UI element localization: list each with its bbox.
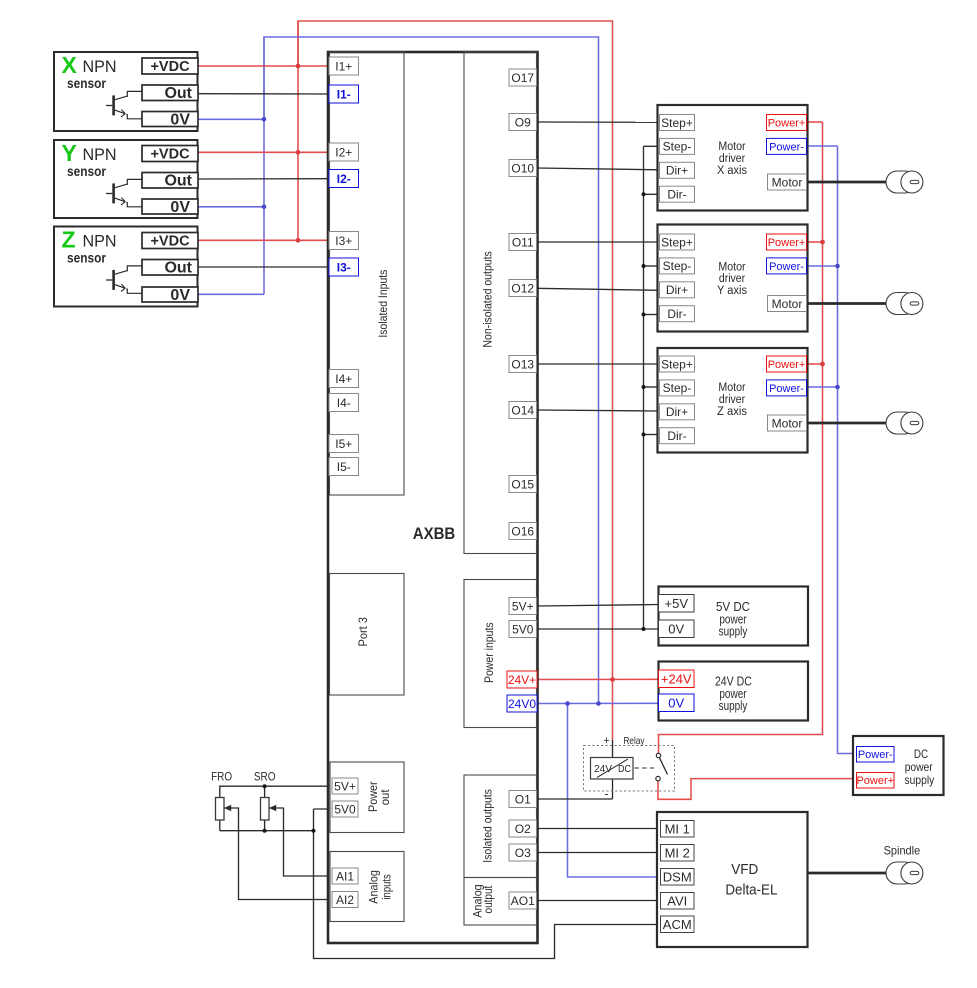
- svg-text:Motor: Motor: [718, 261, 745, 273]
- svg-text:SRO: SRO: [254, 772, 276, 784]
- svg-text:Out: Out: [164, 260, 192, 277]
- svg-text:DSM: DSM: [663, 869, 692, 884]
- svg-text:O16: O16: [511, 524, 534, 538]
- svg-text:ACM: ACM: [663, 917, 692, 932]
- svg-text:MI 2: MI 2: [665, 845, 690, 860]
- svg-text:+24V: +24V: [661, 671, 692, 686]
- svg-text:5V0: 5V0: [334, 802, 356, 816]
- svg-text:0V: 0V: [170, 199, 190, 216]
- svg-text:5V+: 5V+: [334, 779, 356, 793]
- svg-text:Out: Out: [164, 173, 192, 190]
- svg-text:-: -: [605, 787, 609, 801]
- svg-text:O13: O13: [511, 357, 534, 371]
- svg-text:Z axis: Z axis: [717, 406, 747, 418]
- svg-text:inputs: inputs: [380, 874, 394, 899]
- svg-text:AVI: AVI: [667, 893, 687, 908]
- svg-text:I1-: I1-: [337, 87, 351, 101]
- svg-text:driver: driver: [719, 153, 745, 165]
- svg-text:I3-: I3-: [337, 260, 351, 274]
- svg-text:Power-: Power-: [858, 749, 893, 761]
- svg-text:I4-: I4-: [337, 396, 351, 410]
- svg-text:Step-: Step-: [663, 381, 692, 395]
- svg-text:Step+: Step+: [661, 357, 693, 371]
- svg-text:NPN: NPN: [83, 233, 117, 251]
- svg-text:Power-: Power-: [769, 261, 804, 273]
- svg-text:0V: 0V: [170, 287, 190, 304]
- svg-text:+VDC: +VDC: [150, 147, 190, 163]
- svg-text:AXBB: AXBB: [413, 524, 456, 543]
- svg-text:FRO: FRO: [211, 772, 232, 784]
- svg-text:Step-: Step-: [663, 259, 692, 273]
- svg-text:Power-: Power-: [769, 141, 804, 153]
- svg-text:Power+: Power+: [768, 359, 806, 371]
- svg-text:O3: O3: [515, 846, 531, 860]
- svg-text:+: +: [603, 735, 609, 747]
- svg-text:Dir-: Dir-: [667, 429, 686, 443]
- svg-text:Relay: Relay: [624, 735, 646, 747]
- svg-text:Motor: Motor: [772, 175, 803, 189]
- svg-text:+VDC: +VDC: [150, 234, 190, 250]
- svg-text:Power inputs: Power inputs: [482, 622, 496, 683]
- svg-text:Step+: Step+: [661, 235, 693, 249]
- svg-text:AO1: AO1: [511, 894, 535, 908]
- svg-text:5V+: 5V+: [512, 599, 534, 613]
- svg-text:NPN: NPN: [83, 146, 117, 164]
- svg-text:O12: O12: [511, 281, 534, 295]
- svg-text:O17: O17: [511, 71, 534, 85]
- svg-text:Spindle: Spindle: [884, 844, 921, 858]
- svg-text:supply: supply: [719, 698, 748, 713]
- svg-text:5V0: 5V0: [512, 622, 534, 636]
- svg-text:Out: Out: [164, 85, 192, 102]
- svg-text:0V: 0V: [668, 621, 684, 636]
- svg-text:supply: supply: [905, 773, 935, 787]
- svg-text:Motor: Motor: [718, 141, 745, 153]
- svg-text:AI2: AI2: [336, 893, 354, 907]
- svg-text:Isolated outputs: Isolated outputs: [481, 789, 495, 863]
- svg-text:Non-isolated outputs: Non-isolated outputs: [481, 251, 495, 347]
- svg-text:driver: driver: [719, 394, 745, 406]
- svg-text:O2: O2: [515, 822, 531, 836]
- svg-text:24V: 24V: [594, 764, 612, 775]
- svg-text:0V: 0V: [668, 695, 684, 710]
- svg-text:driver: driver: [719, 273, 745, 285]
- svg-text:Isolated Inputs: Isolated Inputs: [376, 270, 390, 338]
- svg-text:DC: DC: [914, 747, 928, 761]
- svg-text:Y axis: Y axis: [717, 285, 747, 297]
- svg-text:Step+: Step+: [661, 116, 693, 130]
- svg-text:Dir-: Dir-: [667, 307, 686, 321]
- svg-text:Step-: Step-: [663, 140, 692, 154]
- svg-text:Power-: Power-: [769, 383, 804, 395]
- svg-text:Dir+: Dir+: [666, 405, 688, 419]
- svg-text:X axis: X axis: [717, 165, 747, 177]
- svg-text:AI1: AI1: [336, 869, 354, 883]
- svg-text:Dir+: Dir+: [666, 164, 688, 178]
- svg-text:O15: O15: [511, 477, 534, 491]
- svg-text:Motor: Motor: [772, 297, 803, 311]
- svg-text:24V0: 24V0: [508, 697, 536, 711]
- svg-text:24V+: 24V+: [508, 673, 536, 687]
- svg-text:output: output: [481, 885, 495, 913]
- svg-text:NPN: NPN: [83, 58, 117, 76]
- svg-text:I3+: I3+: [335, 234, 352, 248]
- svg-text:+VDC: +VDC: [150, 59, 190, 75]
- svg-text:I5+: I5+: [335, 437, 352, 451]
- svg-text:Motor: Motor: [718, 382, 745, 394]
- svg-text:O9: O9: [515, 115, 531, 129]
- svg-text:I2-: I2-: [337, 172, 351, 186]
- svg-text:Dir-: Dir-: [667, 188, 686, 202]
- svg-text:Port 3: Port 3: [356, 617, 370, 647]
- svg-text:O14: O14: [511, 403, 534, 417]
- svg-text:I2+: I2+: [335, 145, 352, 159]
- svg-text:supply: supply: [719, 624, 748, 639]
- svg-text:I1+: I1+: [335, 59, 352, 73]
- svg-text:+5V: +5V: [665, 596, 689, 611]
- svg-text:0V: 0V: [170, 112, 190, 129]
- svg-text:out: out: [378, 789, 392, 805]
- svg-text:MI 1: MI 1: [665, 821, 690, 836]
- svg-text:Dir+: Dir+: [666, 283, 688, 297]
- svg-text:power: power: [905, 760, 933, 774]
- svg-text:sensor: sensor: [67, 163, 106, 179]
- svg-text:I4+: I4+: [335, 372, 352, 386]
- svg-text:Power+: Power+: [856, 775, 894, 787]
- svg-text:O1: O1: [515, 792, 531, 806]
- svg-text:O11: O11: [512, 235, 534, 249]
- svg-text:DC: DC: [618, 764, 631, 775]
- svg-text:sensor: sensor: [67, 75, 106, 91]
- svg-text:VFD: VFD: [731, 861, 758, 878]
- svg-text:Motor: Motor: [772, 416, 803, 430]
- svg-text:Delta-EL: Delta-EL: [725, 882, 777, 899]
- svg-text:I5-: I5-: [337, 460, 351, 474]
- svg-text:sensor: sensor: [67, 250, 106, 266]
- svg-text:O10: O10: [511, 161, 534, 175]
- svg-text:Analog: Analog: [367, 870, 381, 904]
- svg-text:Power+: Power+: [768, 117, 806, 129]
- svg-text:Power+: Power+: [768, 237, 806, 249]
